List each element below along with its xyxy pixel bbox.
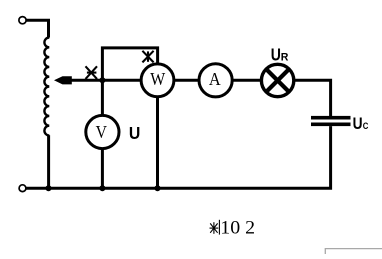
wire lamp to right corner xyxy=(294,80,331,116)
wire top from terminal to coil xyxy=(26,20,48,37)
autotransformer coil T xyxy=(44,38,49,136)
node: junction arrow wire / voltmeter branch xyxy=(99,77,105,83)
wire voltage-coil loop (box) of wattmeter xyxy=(102,48,157,80)
svg-text:C: C xyxy=(363,120,369,131)
svg-text:R: R xyxy=(281,51,289,63)
terminal bottom-left xyxy=(19,185,26,192)
selection box corner bottom-right xyxy=(325,249,382,254)
svg-text:10 2: 10 2 xyxy=(220,218,255,239)
op wattmeter W xyxy=(141,64,174,97)
svg-text:V: V xyxy=(96,122,107,142)
svg-text:W: W xyxy=(150,69,165,89)
wattmeter voltage-terminal asterisk xyxy=(142,51,153,63)
wire A to lamp xyxy=(232,79,261,82)
svg-text:U: U xyxy=(353,115,363,134)
caption figure glyph (mi-like char) xyxy=(210,220,220,235)
wire voltmeter to bottom rail xyxy=(101,149,104,189)
svg-text:A: A xyxy=(209,69,221,89)
lamp R (circle with X) xyxy=(261,64,293,96)
svg-text:U: U xyxy=(271,45,281,65)
terminal top-left xyxy=(19,17,26,24)
svg-text:U: U xyxy=(129,123,140,143)
wire capacitor bottom to bottom rail xyxy=(26,126,331,188)
wire junction to voltmeter xyxy=(101,80,104,115)
voltmeter V xyxy=(86,115,119,148)
node voltmeter / bottom rail xyxy=(99,185,105,191)
wire coil bottom to bottom rail xyxy=(47,135,50,188)
wattmeter current-terminal asterisk xyxy=(86,66,98,79)
wire W to A xyxy=(174,79,200,82)
node wattmeter / bottom rail xyxy=(155,185,161,191)
ammeter A xyxy=(199,64,232,97)
wire W bottom to bottom rail xyxy=(156,97,159,190)
capacitor C plates xyxy=(311,116,351,120)
node coil / bottom rail xyxy=(46,185,52,191)
wiper arrow of autotransformer xyxy=(60,79,142,82)
